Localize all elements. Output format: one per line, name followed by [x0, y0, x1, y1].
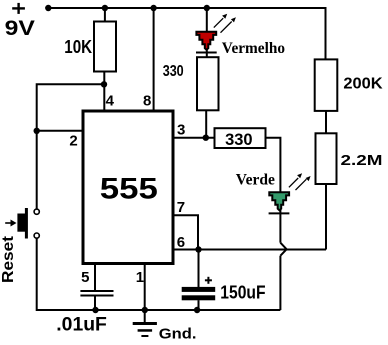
svg-text:3: 3 [177, 121, 185, 138]
svg-text:555: 555 [100, 173, 158, 206]
svg-text:6: 6 [177, 234, 185, 251]
svg-text:5: 5 [81, 269, 89, 286]
svg-text:330: 330 [225, 131, 253, 149]
svg-text:2: 2 [69, 133, 77, 150]
svg-text:Vermelho: Vermelho [222, 40, 285, 57]
svg-text:Verde: Verde [236, 172, 275, 189]
svg-text:150uF: 150uF [220, 282, 265, 302]
svg-text:9V: 9V [5, 17, 35, 40]
svg-text:8: 8 [143, 93, 151, 110]
svg-text:4: 4 [106, 93, 115, 110]
svg-text:Gnd.: Gnd. [159, 326, 197, 343]
svg-text:330: 330 [163, 63, 184, 80]
svg-text:200K: 200K [343, 75, 383, 92]
svg-text:Reset: Reset [0, 235, 17, 283]
svg-text:2.2M: 2.2M [341, 152, 383, 169]
svg-text:.01uF: .01uF [56, 314, 107, 335]
svg-text:7: 7 [177, 199, 185, 216]
svg-text:10K: 10K [64, 37, 92, 57]
svg-text:1: 1 [136, 269, 144, 286]
